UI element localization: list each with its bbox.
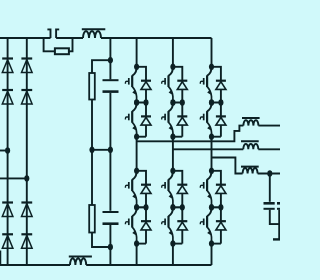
- node bottom dot leg22: [170, 240, 175, 247]
- node mid dot igbt col leg21: [134, 204, 139, 211]
- wire cell top elbow leg23b: [212, 207, 221, 220]
- diode D19: [216, 184, 226, 186]
- diode D4: [2, 233, 13, 235]
- capacitor C4 plate top edge fragment: [277, 202, 280, 205]
- inductor L1 core bar: [82, 28, 106, 30]
- wire phase 3 output bus: [212, 158, 243, 174]
- wire diode lead leg21b: [145, 230, 147, 244]
- resistor R3 balance lower: [89, 205, 95, 233]
- wire cell top elbow leg11a: [137, 67, 146, 80]
- node leg13a top: [209, 64, 214, 71]
- wire rectifier rail 2: [26, 38, 28, 265]
- wire diode lead leg23b: [220, 230, 222, 244]
- wire diode lead leg23a: [220, 193, 222, 207]
- node AC tap rail 2: [24, 175, 29, 182]
- wire cell top elbow leg12a: [173, 67, 182, 80]
- inductor L3 core bar: [242, 117, 260, 119]
- wire bottom bus left segment: [0, 264, 70, 266]
- inductor L4 core bar: [241, 140, 259, 142]
- node mid dot diode col leg22: [180, 204, 185, 211]
- wire cell bottom elbow leg23b: [212, 243, 221, 245]
- inductor L4 coil: [243, 144, 258, 149]
- inductor L2 coil: [70, 258, 86, 265]
- node phase3 filter tap: [267, 170, 272, 177]
- transistor Q2: [132, 103, 136, 112]
- node leg11a top: [134, 64, 139, 71]
- wire filter cap lead: [269, 174, 271, 202]
- transistor Q6: [207, 103, 211, 112]
- node mid dot diode col leg13: [218, 99, 223, 106]
- wire diode lead leg22b: [181, 230, 183, 244]
- diode D2: [2, 89, 13, 91]
- wire diode lead leg12a: [181, 89, 183, 102]
- wire dc-link mid rail: [92, 149, 110, 151]
- wire AC input phase 1: [0, 150, 8, 152]
- capacitor C3 plate bottom: [264, 208, 275, 210]
- capacitor C2 plate top: [103, 211, 119, 213]
- diode D10: [141, 115, 151, 117]
- node leg22a top: [170, 168, 175, 175]
- wire diode lead leg12b: [181, 125, 183, 137]
- wire dc-link top jumper: [92, 60, 110, 73]
- wire cell bottom elbow leg21a: [137, 206, 146, 208]
- node mid dot igbt col leg13: [209, 99, 214, 106]
- wire leg3 phase vertical: [211, 137, 213, 171]
- wire cell bottom elbow leg12b: [173, 136, 182, 138]
- wire precharge right lead: [69, 38, 73, 51]
- wire phase3 to edge: [258, 173, 280, 175]
- resistor R2 balance upper: [89, 73, 95, 100]
- wire B mid upper: [109, 93, 111, 150]
- wire top bus left segment: [0, 37, 51, 39]
- capacitor C1 plate top: [103, 79, 119, 81]
- wire cell top elbow leg13b: [212, 103, 221, 116]
- resistor R1 precharge: [55, 48, 69, 54]
- wire cell bottom elbow leg11b: [137, 136, 146, 138]
- wire diode lead leg13b: [220, 125, 222, 137]
- node mid dot diode col leg23: [218, 204, 223, 211]
- transistor Q4: [169, 103, 173, 112]
- node mid dot igbt col leg22: [170, 204, 175, 211]
- node mid dot igbt col leg12: [170, 99, 175, 106]
- node leg21a top: [134, 168, 139, 175]
- wire cell bottom elbow leg21b: [137, 243, 146, 245]
- transistor Q9: [169, 171, 173, 180]
- wire stub bottom-left edge: [0, 251, 2, 266]
- node bottom dot leg11: [134, 133, 139, 140]
- wire A mid lower: [91, 150, 93, 205]
- diode D12: [177, 115, 187, 117]
- wire diode lead leg22a: [181, 193, 183, 207]
- wire leg1 phase vertical: [136, 137, 138, 171]
- transistor Q5: [207, 67, 211, 76]
- node leg13b top: [209, 99, 214, 106]
- wire precharge left lead: [44, 38, 55, 51]
- node bottom dot leg13: [209, 133, 214, 140]
- wire B mid lower: [109, 150, 111, 211]
- diode D20: [216, 220, 226, 222]
- diode D3: [2, 201, 13, 203]
- wire C4 lead: [278, 210, 280, 239]
- wire leg3 to bottom bus: [211, 244, 213, 265]
- diode D18: [177, 220, 187, 222]
- capacitor C2 plate bottom: [103, 222, 119, 225]
- wire cell bottom elbow leg11a: [137, 102, 146, 104]
- diode D8: [21, 233, 32, 235]
- wire phase1 to edge: [258, 125, 280, 127]
- wire cell top elbow leg23a: [212, 171, 221, 184]
- node leg23a top: [209, 168, 214, 175]
- node leg23b top: [209, 204, 214, 211]
- transistor Q12: [207, 207, 211, 216]
- node mid dot diode col leg12: [180, 99, 185, 106]
- node bottom dot leg21: [134, 240, 139, 247]
- transistor Q1: [132, 67, 136, 76]
- node AC tap rail 1: [5, 147, 10, 154]
- inductor L1 coil: [83, 31, 101, 38]
- ground bar: [273, 238, 280, 240]
- transistor Q11: [207, 171, 211, 180]
- diode D7: [21, 201, 32, 203]
- wire diode lead leg11a: [145, 89, 147, 102]
- node leg12a top: [170, 64, 175, 71]
- diode D11: [177, 80, 187, 82]
- inductor L5 core bar: [241, 166, 259, 168]
- wire phase2 to edge: [258, 148, 280, 150]
- node mid dot diode col leg21: [143, 204, 148, 211]
- wire leg2 phase vertical: [172, 137, 174, 171]
- node mid dot igbt col leg23: [209, 204, 214, 211]
- node bottom dot leg23: [209, 240, 214, 247]
- wire cell bottom elbow leg13b: [212, 136, 221, 138]
- wire cell top elbow leg22a: [173, 171, 182, 184]
- wire cell bottom elbow leg12a: [173, 102, 182, 104]
- node bottom dot leg12: [170, 133, 175, 140]
- wire cell top elbow leg13a: [212, 67, 221, 80]
- diode D1: [2, 57, 13, 59]
- wire cell top elbow leg11b: [137, 103, 146, 116]
- node J3: [108, 147, 113, 154]
- capacitor C1 plate bottom: [103, 90, 119, 93]
- wire leg2 from top bus: [172, 38, 174, 67]
- diode D6: [21, 89, 32, 91]
- node mid dot igbt col leg11: [134, 99, 139, 106]
- transistor Q3: [169, 67, 173, 76]
- node J2: [89, 147, 94, 154]
- wire cell top elbow leg22b: [173, 207, 182, 220]
- wire leg1 from top bus: [136, 38, 138, 67]
- capacitor C4 plate bottom edge fragment: [277, 208, 280, 210]
- wire leg2 to bottom bus: [172, 244, 174, 265]
- wire cell bottom elbow leg22b: [173, 243, 182, 245]
- wire cell top elbow leg12b: [173, 103, 182, 116]
- wire cell bottom elbow leg22a: [173, 206, 182, 208]
- wire AC input phase 2: [0, 177, 27, 179]
- wire B bottom: [109, 225, 111, 265]
- inductor L5 coil: [243, 168, 258, 173]
- node leg12b top: [170, 99, 175, 106]
- node J4: [108, 244, 113, 251]
- node leg21b top: [134, 204, 139, 211]
- wire leg1 to bottom bus: [136, 244, 138, 265]
- wire diode lead leg11b: [145, 125, 147, 137]
- node J1: [108, 57, 113, 64]
- transistor Q10: [169, 207, 173, 216]
- wire C3 bottom elbow: [270, 210, 279, 224]
- diode D14: [216, 115, 226, 117]
- capacitor C3 plate top: [264, 202, 275, 205]
- wire diode lead leg13a: [220, 89, 222, 102]
- wire cell bottom elbow leg13a: [212, 102, 221, 104]
- inductor L3 coil: [243, 120, 258, 125]
- node leg11b top: [134, 99, 139, 106]
- node leg22b top: [170, 204, 175, 211]
- wire rectifier rail 1: [7, 38, 9, 265]
- inductor L2 core bar: [69, 256, 92, 258]
- node mid dot diode col leg11: [143, 99, 148, 106]
- diode D13: [216, 80, 226, 82]
- wire top bus mid segment: [56, 37, 83, 39]
- diode D15: [141, 184, 151, 186]
- wire leg3 from top bus corner: [211, 38, 213, 67]
- wire diode lead leg21a: [145, 193, 147, 207]
- transistor Q8: [132, 207, 136, 216]
- wire A bottom jumper: [92, 233, 110, 248]
- wire phase 1 output bus: [137, 126, 244, 142]
- wire cell bottom elbow leg23a: [212, 206, 221, 208]
- wire A mid upper: [91, 100, 93, 150]
- diode D9: [141, 80, 151, 82]
- diode D16: [141, 220, 151, 222]
- wire cell top elbow leg21b: [137, 207, 146, 220]
- diode D5: [21, 57, 32, 59]
- transistor Q7: [132, 171, 136, 180]
- diode D17: [177, 184, 187, 186]
- wire top bus right segment: [101, 37, 212, 39]
- wire bottom bus right segment: [86, 264, 211, 266]
- wire dc-link vertical B top: [109, 38, 111, 79]
- wire phase 2 output bus: [173, 148, 243, 150]
- wire cell top elbow leg21a: [137, 171, 146, 184]
- contactor K1 open contact stubs: [47, 29, 59, 38]
